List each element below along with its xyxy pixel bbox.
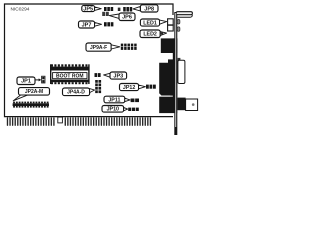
component mark below LED2 (160, 32, 163, 34)
pointer JP9A-F (111, 45, 120, 49)
pointer JP10 (124, 107, 128, 110)
pin header JP2A-M (13, 102, 49, 108)
jumper JP3 (95, 73, 101, 77)
svg-text:JP4A-D: JP4A-D (67, 90, 85, 96)
bracket foot block (177, 98, 185, 111)
pointer JP1 (35, 78, 41, 81)
svg-text:BOOT ROM: BOOT ROM (56, 74, 84, 80)
white divider line (159, 96, 171, 97)
label JP1 (17, 77, 35, 85)
label JP7 (79, 21, 95, 28)
jumper JP10 (128, 108, 139, 111)
pointer JP2A-M (13, 95, 27, 101)
label JP9A-F (86, 43, 111, 51)
jumper pin (118, 8, 121, 11)
pointer JP6 (109, 14, 119, 18)
pointer JP5 (95, 7, 102, 10)
svg-text:NIC0294: NIC0294 (11, 7, 30, 13)
svg-text:JP3: JP3 (113, 74, 123, 80)
connector column along bracket (173, 38, 178, 97)
connector body below divider (159, 97, 177, 114)
svg-text:JP10: JP10 (107, 107, 119, 113)
BNC barrel outside bracket (178, 58, 185, 84)
BOOT ROM socket bottom pin row (50, 80, 89, 85)
svg-text:LED2: LED2 (143, 32, 157, 38)
connector step (168, 59, 177, 64)
svg-text:JP6: JP6 (122, 15, 132, 21)
jumper JP5 (104, 7, 113, 11)
ISA edge connector fingers, front segment (65, 117, 151, 126)
svg-text:JP12: JP12 (123, 85, 135, 91)
svg-text:JP11: JP11 (108, 97, 120, 103)
pin block JP4A-D (2x4) (95, 80, 101, 93)
label JP4A-D (63, 88, 90, 96)
label JP11 (104, 96, 125, 103)
jumper JP7 (104, 22, 113, 26)
BOOT ROM socket body (50, 64, 90, 84)
pointer JP11 (125, 98, 130, 101)
svg-text:LED1: LED1 (143, 20, 157, 26)
pointer JP3 (104, 73, 110, 77)
svg-text:JP7: JP7 (82, 22, 92, 28)
jumper JP6 (102, 12, 109, 16)
LED2 lens through bracket (177, 27, 180, 32)
jumper JP8 (123, 7, 132, 12)
bracket foot screw tab (186, 99, 198, 111)
pointer JP7 (95, 22, 102, 26)
pointer LED2 (160, 32, 166, 36)
pointer JP4A-D (90, 89, 95, 93)
LED1 lens through bracket (177, 20, 180, 25)
svg-text:JP2A-M: JP2A-M (25, 89, 43, 95)
bracket top tab (176, 12, 192, 18)
BOOT ROM label (53, 73, 87, 80)
label LED2 (140, 30, 160, 38)
svg-text:JP9A-F: JP9A-F (90, 45, 107, 51)
card outline (PCB border) (5, 4, 174, 117)
svg-text:JP5: JP5 (83, 6, 93, 12)
pointer JP8 (133, 6, 140, 10)
jumper JP1 (vertical 2-pin) (42, 76, 45, 83)
BOOT ROM socket top pin row (50, 64, 89, 70)
LED holder cells on bracket (168, 19, 174, 31)
label JP2A-M (19, 88, 50, 96)
label JP3 (110, 72, 127, 80)
pin header JP9A-F (121, 44, 137, 50)
ISA edge connector fingers, rear segment (7, 117, 55, 126)
connector block upper (black) (161, 38, 177, 53)
svg-text:JP8: JP8 (144, 6, 154, 12)
jumper JP12 (146, 85, 156, 89)
label LED1 (140, 19, 159, 26)
pointer JP12 (139, 85, 146, 89)
jumper JP11 (131, 99, 139, 103)
edge connector key notch (58, 117, 63, 123)
connector block lower (AUI, black) (159, 63, 177, 96)
bracket inner highlight line (175, 13, 176, 127)
mounting bracket (174, 12, 177, 135)
label JP10 (102, 106, 124, 113)
svg-text:JP1: JP1 (21, 79, 31, 85)
pointer LED1 (160, 20, 167, 24)
label JP5 (82, 5, 95, 12)
label JP12 (120, 84, 139, 92)
label JP8 (140, 5, 158, 13)
label JP6 (119, 13, 135, 21)
